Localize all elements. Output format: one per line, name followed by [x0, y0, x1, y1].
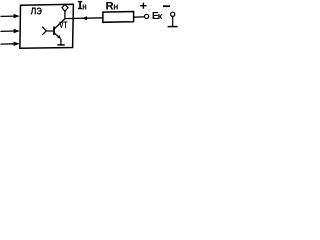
terminal post wire — [172, 17, 174, 27]
svg-text:н: н — [82, 1, 87, 11]
transistor VT base bar — [53, 27, 55, 35]
svg-text:н: н — [113, 2, 118, 12]
wire from resistor to +Ек terminal — [134, 16, 145, 18]
plus sign — [140, 3, 146, 9]
input arrowhead 3 — [14, 42, 20, 46]
input wire 3 — [1, 43, 16, 45]
logic element box U1 (ЛЭ) — [20, 4, 74, 48]
label Iн — [78, 1, 82, 9]
open-collector diamond symbol — [62, 4, 68, 11]
transistor VT emitter arrowhead — [57, 35, 61, 39]
output wire to load resistor — [65, 17, 103, 20]
emitter common bar — [57, 44, 64, 46]
input arrowhead 2 — [14, 29, 20, 33]
input wire 2 — [1, 30, 16, 32]
svg-text:ЛЭ: ЛЭ — [31, 6, 42, 17]
terminal circle + of Ек — [145, 14, 149, 18]
transistor VT collector lead — [54, 19, 65, 30]
resistor Rн body — [103, 12, 134, 23]
input wire 1 — [1, 15, 16, 17]
svg-text:VT: VT — [59, 20, 68, 30]
input arrowhead 1 — [14, 14, 20, 18]
transistor VT base junction chevron — [42, 27, 46, 35]
terminal circle - of Ек — [171, 12, 175, 16]
wire from diamond to collector node — [64, 11, 66, 18]
svg-text:к: к — [158, 11, 163, 21]
minus sign — [163, 5, 170, 7]
transistor VT base lead — [46, 30, 53, 32]
terminal post bar — [168, 26, 178, 28]
transistor VT emitter lead — [54, 33, 60, 38]
emitter down wire — [60, 39, 62, 45]
current direction arrowhead Iн — [82, 16, 87, 20]
